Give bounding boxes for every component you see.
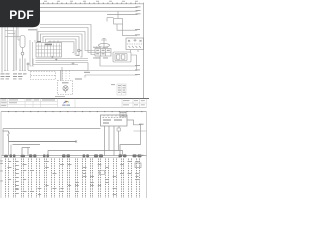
wire feed line 3	[40, 10, 138, 12]
wire top bus with ticks	[38, 2, 144, 5]
labels lower right arrows	[135, 65, 140, 75]
wire fuse leads to arrows	[117, 24, 137, 36]
junction box nested	[113, 52, 137, 71]
splice box on drop	[100, 171, 105, 175]
relay K1 terminal matrix	[36, 41, 62, 58]
labels right of bundle	[93, 47, 98, 59]
node cross marks relay	[51, 56, 57, 61]
label right of left bundle	[28, 29, 37, 30]
label arrows right top	[136, 6, 141, 14]
wires A10 down to bus	[48, 126, 123, 156]
PDF badge	[0, 0, 40, 27]
title block strip	[0, 98, 149, 107]
dashed harness drops	[6, 159, 140, 199]
label relay K1	[45, 44, 52, 46]
label arrow right page2	[139, 124, 144, 125]
fuse drop symbol	[3, 131, 10, 142]
dashed box aux	[31, 72, 56, 80]
wire relay to right links	[31, 59, 88, 71]
motor M1 dashed box	[58, 81, 73, 95]
wire labels page2 scatter	[0, 161, 139, 195]
fuse box F1	[107, 11, 123, 24]
relay on drop	[135, 163, 141, 168]
labels pin table rows	[118, 85, 126, 93]
control unit A10 box	[101, 115, 128, 126]
pin table right	[117, 84, 126, 95]
page 1 sheet border	[2, 3, 144, 99]
page 2 side borders	[1, 112, 147, 198]
control box grid A3	[95, 49, 111, 57]
dotted columns above motor	[63, 71, 70, 81]
node plus mark	[27, 63, 30, 66]
svg-text:PDF: PDF	[9, 8, 34, 22]
wire battery down leads	[131, 50, 139, 52]
wire nested corners center	[37, 25, 95, 58]
labels left bottom cluster 1	[1, 73, 11, 79]
capacitor symbol C1	[99, 39, 110, 49]
wire feed line 2	[40, 7, 138, 9]
wire lower right staircase	[85, 56, 137, 78]
connector blocks on bus	[4, 154, 142, 157]
wire left bundle	[5, 27, 20, 71]
relay K2 rounded	[20, 36, 25, 53]
label left of pin table	[111, 83, 115, 86]
label matrix corner	[37, 41, 41, 42]
wire motor feed pair	[61, 67, 63, 81]
ground symbol left	[21, 52, 24, 58]
labels fuse lead arrows	[135, 29, 140, 35]
label sheet number above strip	[55, 95, 65, 98]
label small text mid	[75, 79, 82, 80]
main harness bus page2	[2, 156, 147, 158]
label left of A3	[76, 54, 80, 57]
small box right of strip	[120, 112, 126, 117]
wire feed line 4	[107, 14, 138, 16]
page 2 top border with ticks	[1, 111, 147, 113]
battery G1	[126, 38, 144, 50]
labels under A3	[96, 57, 109, 60]
labels in A3 cells	[96, 50, 110, 55]
logo mark	[62, 101, 70, 106]
labels title strip	[1, 100, 145, 107]
labels column numbers top	[44, 0, 138, 3]
labels inside A10	[103, 120, 122, 124]
wire drops left of matrix	[30, 40, 35, 66]
wire stub right of bus	[139, 155, 144, 156]
wire page2 horizontal upper	[3, 120, 147, 156]
labels above control grid	[96, 46, 108, 49]
wire left bundle ends	[4, 59, 31, 71]
label near staircase left	[84, 72, 90, 73]
wire page2 mid bus	[9, 140, 141, 155]
labels left bottom cluster 2	[13, 73, 27, 79]
lamp symbol on feed wire	[78, 49, 83, 52]
